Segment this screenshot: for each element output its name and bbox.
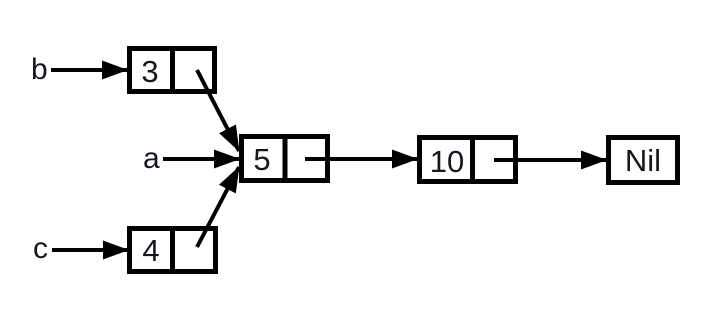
- svg-text:5: 5: [253, 142, 270, 177]
- svg-text:3: 3: [141, 54, 158, 89]
- svg-text:10: 10: [430, 144, 464, 179]
- svg-text:a: a: [143, 142, 160, 175]
- svg-text:b: b: [31, 53, 48, 86]
- svg-text:4: 4: [142, 233, 159, 268]
- svg-text:c: c: [33, 232, 48, 265]
- svg-text:Nil: Nil: [625, 143, 661, 178]
